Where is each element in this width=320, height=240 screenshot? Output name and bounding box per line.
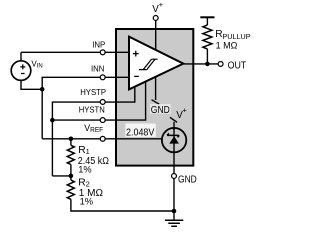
- label 2.048V with knockout: [125, 124, 156, 137]
- hysteresis symbol inside comparator: [139, 59, 158, 69]
- svg-text:R1: R1: [78, 145, 90, 156]
- zener anode triangle: [169, 136, 179, 143]
- reference D1 2.048V shunt: [162, 128, 186, 152]
- wire HYSTN net: [52, 82, 145, 121]
- svg-text:R2: R2: [78, 178, 90, 189]
- net tap GND slash: [152, 100, 160, 105]
- ground symbol: [165, 220, 183, 226]
- wire GND from reference to ground: [173, 153, 175, 220]
- svg-text:HYSTN: HYSTN: [79, 104, 105, 114]
- svg-text:1 MΩ: 1 MΩ: [216, 41, 238, 52]
- svg-text:2.048V: 2.048V: [126, 128, 155, 139]
- svg-text:PULLUP: PULLUP: [222, 32, 250, 41]
- svg-text:GND: GND: [151, 105, 170, 116]
- node R1 top / VREF junction: [69, 137, 74, 142]
- terminal OUT: [218, 61, 223, 66]
- resistor RPULLUP: [203, 25, 212, 49]
- wire V+ supply into comparator: [155, 21, 157, 50]
- node VIN-/INN junction: [40, 87, 45, 92]
- wire HYSTP net: [52, 87, 134, 176]
- zener cathode bar: [167, 133, 179, 137]
- svg-text:HYSTP: HYSTP: [80, 87, 106, 97]
- terminal HYSTN: [100, 118, 105, 123]
- net tap V+ slash at reference: [170, 117, 177, 122]
- terminal GND: [172, 174, 177, 179]
- comparator U1 triangle: [129, 37, 183, 90]
- terminal INN: [100, 75, 105, 80]
- label GND internal: [150, 104, 171, 114]
- svg-text:GND: GND: [178, 174, 197, 185]
- node R1/R2 midpoint junction: [69, 174, 74, 179]
- node HYSTN junction: [50, 118, 55, 123]
- svg-text:1%: 1%: [78, 165, 91, 175]
- node OUT/pullup junction: [205, 62, 210, 67]
- wire pullup top: [206, 17, 208, 25]
- wire through reference: [173, 128, 175, 153]
- wire VIN bottom to node: [21, 80, 42, 89]
- terminal INP: [100, 50, 105, 55]
- wire INN net (vertical drop and horizontal to comparator -): [42, 77, 129, 139]
- IC body U1 (gray block): [116, 29, 193, 166]
- svg-text:+: +: [183, 106, 187, 115]
- wire VIN top: [20, 52, 22, 61]
- svg-text:OUT: OUT: [228, 60, 247, 71]
- svg-text:+: +: [159, 0, 163, 9]
- terminal VREF: [100, 136, 105, 141]
- wire INP net (VIN+ to comparator +): [21, 51, 129, 53]
- wire HYSTP to R1/R2 midpoint: [52, 175, 71, 177]
- comparator - input mark: [134, 75, 139, 77]
- comparator + input mark: [133, 51, 139, 57]
- svg-text:1%: 1%: [80, 197, 93, 207]
- wire comparator GND stub: [155, 77, 157, 100]
- resistor R1: [70, 139, 72, 146]
- wire pullup bottom: [206, 49, 208, 64]
- supply rail bar V+ for pullup: [200, 16, 214, 18]
- svg-text:INN: INN: [91, 64, 104, 74]
- node ground junction: [172, 209, 177, 214]
- wire VREF net horizontal: [42, 138, 162, 140]
- wire OUT net: [183, 63, 218, 65]
- wire reference top: [173, 122, 175, 130]
- source VIN: [11, 61, 31, 81]
- svg-text:INP: INP: [92, 39, 105, 49]
- terminal V+: [153, 16, 158, 21]
- resistor R2: [70, 176, 72, 180]
- terminal HYSTP: [100, 99, 105, 104]
